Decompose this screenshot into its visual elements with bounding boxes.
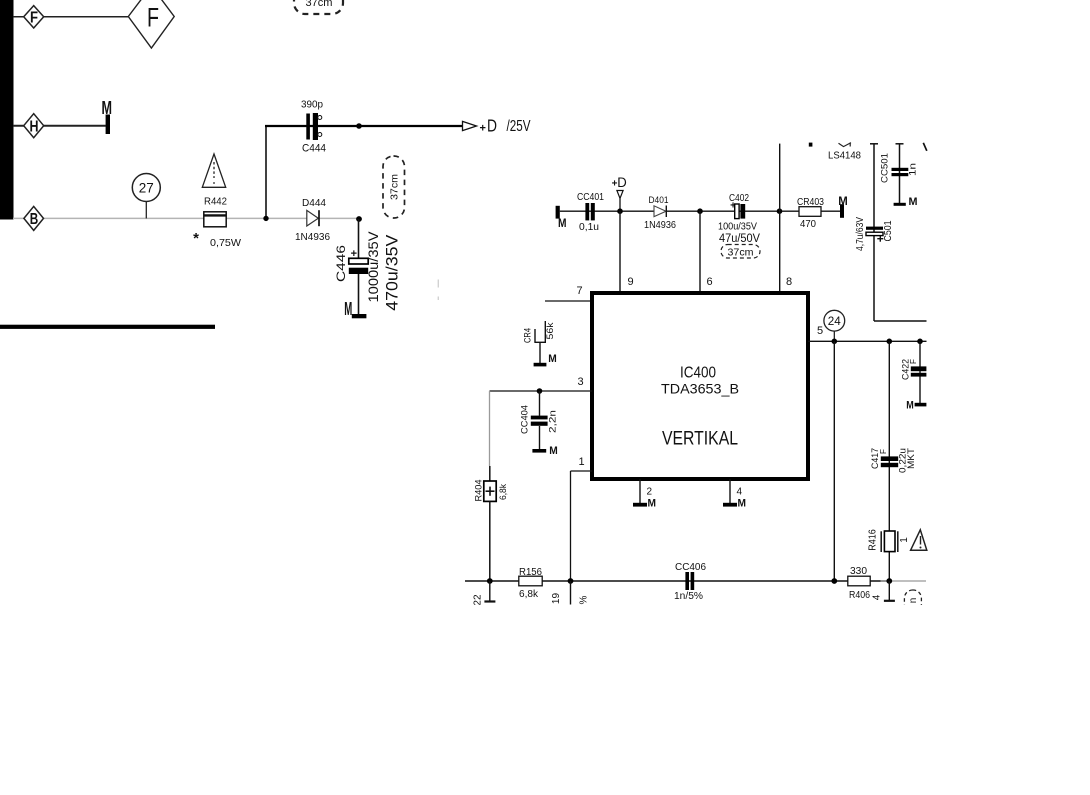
svg-text:M: M xyxy=(738,498,747,510)
stub below pin1 node xyxy=(570,581,572,605)
wire pin 3 xyxy=(490,390,593,392)
resistor CR403 xyxy=(797,197,824,230)
svg-text:7: 7 xyxy=(577,285,583,297)
wire pin 1 xyxy=(571,471,593,581)
resistor R406 xyxy=(848,566,871,601)
svg-text:5: 5 xyxy=(817,325,823,337)
svg-text:H: H xyxy=(30,119,39,136)
capacitor C444 xyxy=(301,100,326,155)
wire pin 7 xyxy=(545,300,592,302)
svg-text:%: % xyxy=(579,595,590,604)
junction xyxy=(263,216,268,221)
svg-text:0,1u: 0,1u xyxy=(579,222,599,233)
svg-text:9: 9 xyxy=(628,276,634,288)
svg-text:M: M xyxy=(558,216,567,230)
wire x874 with cut tick xyxy=(870,144,927,321)
svg-text:M: M xyxy=(548,353,557,365)
svg-text:*: * xyxy=(193,230,199,247)
junction node x889 bottom xyxy=(886,578,892,584)
wire x889 down xyxy=(888,341,890,581)
capacitor CC401 xyxy=(577,192,604,233)
wire x834 down xyxy=(833,341,835,581)
svg-text:B: B xyxy=(30,211,39,228)
junction pin9 node xyxy=(617,208,623,214)
capacitor CC501 xyxy=(880,153,919,183)
svg-text:M: M xyxy=(838,194,848,208)
bottom divider bar xyxy=(0,325,215,329)
svg-text:TDA3653_B: TDA3653_B xyxy=(661,381,739,397)
svg-text:M: M xyxy=(102,98,113,118)
op-amp IC400 box xyxy=(592,293,808,479)
terminal stub below (4) xyxy=(872,581,895,601)
svg-text:CC401: CC401 xyxy=(577,192,604,203)
svg-text:6: 6 xyxy=(707,276,713,288)
junction pin8 node xyxy=(777,208,783,214)
svg-text:R416: R416 xyxy=(867,529,878,551)
svg-text:VERTIKAL: VERTIKAL xyxy=(662,429,738,450)
resistor R156 xyxy=(519,567,543,600)
svg-text:0,75W: 0,75W xyxy=(210,237,241,249)
ground pin 2 xyxy=(633,479,656,510)
+D supply arrow (pin9 node) xyxy=(612,174,627,211)
bus bar xyxy=(0,0,14,220)
svg-text:R406: R406 xyxy=(849,590,870,601)
wire pin 9 xyxy=(619,211,621,292)
svg-text:F: F xyxy=(879,449,888,454)
junction pin5 a xyxy=(832,339,838,345)
svg-text:6,8k: 6,8k xyxy=(519,589,539,600)
junction pin5 b xyxy=(887,339,893,345)
wire pin 8 xyxy=(779,211,781,292)
svg-text:24: 24 xyxy=(828,316,842,328)
wire pin 6 xyxy=(699,211,701,292)
svg-text:22: 22 xyxy=(472,594,483,606)
svg-text:1N4936: 1N4936 xyxy=(644,220,676,231)
connector F1 xyxy=(24,6,44,28)
svg-text:D401: D401 xyxy=(649,195,669,206)
bottom feedback wire xyxy=(465,580,889,582)
svg-text:470: 470 xyxy=(800,219,816,230)
junction pin6 node xyxy=(697,208,703,214)
wire B row (light) xyxy=(13,217,359,219)
svg-text:CC501: CC501 xyxy=(880,153,891,183)
svg-text:1n: 1n xyxy=(908,163,919,176)
svg-text:330: 330 xyxy=(850,566,867,577)
ground CC404 xyxy=(532,445,557,457)
svg-text:1000u/35V: 1000u/35V xyxy=(366,232,381,303)
junction node x834 bottom xyxy=(831,578,837,584)
test point 24 xyxy=(824,310,845,341)
svg-text:C446: C446 xyxy=(334,245,348,282)
svg-text:100u/35V: 100u/35V xyxy=(718,222,757,233)
wire H row xyxy=(13,125,106,127)
faint dashes xyxy=(437,280,439,288)
junction pin3 node xyxy=(537,388,543,394)
svg-text:M: M xyxy=(549,445,558,457)
svg-text:LS4148: LS4148 xyxy=(828,150,861,161)
svg-text:37cm: 37cm xyxy=(728,247,754,258)
svg-text:6,8k: 6,8k xyxy=(498,484,509,500)
svg-text:MKT: MKT xyxy=(906,448,917,469)
ground M terminal (left of CC401) xyxy=(556,206,567,230)
ground CC501 xyxy=(894,196,918,208)
warning triangle 1 xyxy=(202,154,225,187)
svg-text:2: 2 xyxy=(647,487,653,498)
svg-text:/25V: /25V xyxy=(507,118,531,135)
label 37cm partial top xyxy=(294,0,343,14)
svg-text:D: D xyxy=(617,174,627,190)
svg-text:470u/35V: 470u/35V xyxy=(383,234,402,311)
svg-text:4: 4 xyxy=(872,594,883,600)
resistor CR404 56k (partial) xyxy=(523,321,556,364)
svg-text:R404: R404 xyxy=(473,480,484,502)
capacitor C446 xyxy=(334,219,401,316)
svg-text:2,2n: 2,2n xyxy=(548,410,559,433)
svg-text:8: 8 xyxy=(786,276,792,288)
main supply wire row xyxy=(560,210,841,212)
svg-text:D444: D444 xyxy=(302,197,326,209)
svg-text:3: 3 xyxy=(578,376,584,388)
diode D401 xyxy=(644,195,676,231)
wire F row xyxy=(13,16,129,18)
ground M terminal (CR403) xyxy=(838,194,848,218)
svg-text:C501: C501 xyxy=(882,220,894,241)
svg-text:390p: 390p xyxy=(301,100,323,111)
capacitor CC404 xyxy=(519,391,558,450)
svg-text:19: 19 xyxy=(551,593,562,605)
connector H xyxy=(24,114,44,138)
resistor R416 xyxy=(867,529,910,552)
svg-text:37cm: 37cm xyxy=(388,174,400,200)
svg-text:M: M xyxy=(344,299,352,319)
svg-text:F: F xyxy=(30,10,38,27)
bottom wire light segment xyxy=(881,580,927,582)
svg-text:R442: R442 xyxy=(204,196,227,208)
capacitor C501 xyxy=(855,217,894,251)
connector F2 large diamond xyxy=(128,0,174,48)
svg-text:M: M xyxy=(906,400,914,412)
svg-text:4: 4 xyxy=(737,487,743,498)
svg-text:D: D xyxy=(487,116,497,136)
wire from top at x780 xyxy=(779,144,781,212)
diode LS4148 partial xyxy=(809,143,862,162)
svg-text:IC400: IC400 xyxy=(680,365,716,382)
svg-text:+: + xyxy=(479,122,485,134)
svg-text:37cm: 37cm xyxy=(306,0,333,9)
resistor R404 xyxy=(473,391,509,581)
svg-text:F: F xyxy=(909,359,918,364)
wire pin 5 xyxy=(808,340,927,342)
svg-text:M: M xyxy=(909,196,918,208)
capacitor C402 xyxy=(718,193,760,245)
connector B xyxy=(24,206,44,230)
bottom crop cover xyxy=(0,605,1090,795)
wire branch up at x=266 xyxy=(265,126,267,218)
svg-text:CC406: CC406 xyxy=(675,562,706,573)
diode D444 xyxy=(295,197,330,243)
junction pin5 c xyxy=(917,339,923,345)
partial mark xyxy=(923,143,927,151)
svg-text:4,7u/63V: 4,7u/63V xyxy=(855,217,866,251)
warning triangle 2 xyxy=(911,530,927,550)
svg-text:CC404: CC404 xyxy=(519,405,530,434)
svg-text:M: M xyxy=(648,498,657,510)
junction node D xyxy=(356,216,362,222)
capacitor C422 xyxy=(900,341,926,403)
label 37cm (rotated stadium) xyxy=(383,156,405,218)
terminal stub below (22) xyxy=(472,581,495,606)
ground C422 xyxy=(906,400,926,412)
label 37cm (C402) xyxy=(721,245,760,259)
junction node R404 bottom xyxy=(487,578,493,584)
svg-text:C444: C444 xyxy=(302,143,326,155)
ground M terminal H row xyxy=(102,98,113,134)
svg-text:1N4936: 1N4936 xyxy=(295,231,330,243)
svg-text:CR4: CR4 xyxy=(523,328,534,343)
ground pin 4 xyxy=(723,479,746,510)
test point 27 xyxy=(132,174,160,219)
svg-text:27: 27 xyxy=(139,180,154,195)
svg-text:n: n xyxy=(908,598,919,604)
arrow +D /25V xyxy=(463,116,531,136)
svg-text:1n/5%: 1n/5% xyxy=(674,591,703,602)
wire top row to arrow xyxy=(265,125,463,127)
svg-text:F: F xyxy=(147,2,159,32)
ground CR404 xyxy=(534,353,557,366)
svg-text:1: 1 xyxy=(579,456,585,468)
svg-text:56k: 56k xyxy=(545,322,556,339)
capacitor C417 xyxy=(870,448,917,473)
wire x899 with cut tick xyxy=(896,144,904,204)
svg-text:47u/50V: 47u/50V xyxy=(719,233,760,245)
capacitor CC406 xyxy=(674,562,706,602)
junction node pin1 bottom xyxy=(568,578,574,584)
resistor R442 xyxy=(193,196,241,250)
label (n) partial stadium xyxy=(904,590,921,614)
svg-text:1: 1 xyxy=(899,537,910,543)
junction xyxy=(356,123,362,129)
ground C446 xyxy=(344,299,366,319)
